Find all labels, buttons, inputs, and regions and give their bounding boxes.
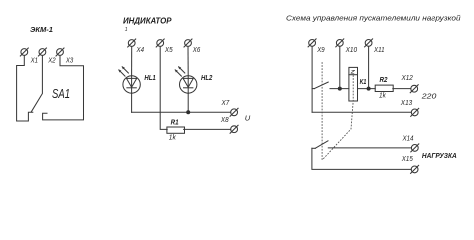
svg-text:z: z [349, 70, 355, 76]
svg-text:X9: X9 [316, 47, 324, 54]
svg-text:X10: X10 [345, 47, 358, 54]
svg-text:X5: X5 [164, 47, 173, 54]
wire X1 to left fixed contact [17, 56, 33, 121]
terminal X7 [221, 100, 238, 116]
svg-text:1: 1 [125, 27, 128, 33]
contact K1.1 blade [314, 82, 328, 89]
svg-text:X1: X1 [30, 58, 38, 65]
terminal X5 [156, 39, 173, 54]
svg-text:X15: X15 [401, 156, 413, 163]
terminal X2 [38, 48, 55, 65]
wire contact to coil [330, 88, 349, 90]
wire HL1 cathode down [131, 93, 133, 112]
terminal X15 [401, 156, 419, 173]
wire X5 down to R1 [160, 47, 167, 130]
svg-text:ИНДИКАТОР: ИНДИКАТОР [123, 17, 172, 26]
svg-text:Схема управления пускателемили: Схема управления пускателемили нагрузкой [286, 13, 461, 22]
svg-text:X6: X6 [192, 47, 200, 54]
wire X11 down [368, 47, 370, 89]
wire coil to R2 [358, 88, 376, 90]
wire R2 to X12 [393, 88, 411, 90]
svg-text:X8: X8 [220, 117, 229, 124]
relay coil K1 [349, 67, 367, 101]
terminal X10 [336, 39, 357, 54]
svg-text:R1: R1 [171, 120, 179, 127]
label ИНДИКАТОР [123, 17, 172, 33]
svg-text:X12: X12 [401, 75, 413, 82]
terminal X6 [184, 39, 200, 54]
terminal X4 [128, 39, 144, 54]
svg-text:K1: K1 [360, 79, 367, 86]
LED HL1 [118, 66, 156, 93]
contact K1.2 left post to X15 [312, 148, 411, 169]
wire X3 to right fixed contact [43, 56, 84, 120]
svg-text:X11: X11 [373, 47, 385, 54]
wire X9 node to X13 [312, 111, 411, 113]
contact K1.2 pivot tick [312, 147, 315, 149]
svg-text:X4: X4 [136, 47, 144, 54]
junction dot X11 [367, 87, 371, 91]
svg-text:X3: X3 [65, 58, 73, 65]
wire common bus to X7 [132, 111, 231, 113]
switch SA1 moving blade from X2 [31, 56, 70, 112]
terminal X12 [401, 75, 419, 93]
svg-text:U: U [245, 114, 251, 123]
terminal X11 [365, 39, 385, 54]
LED HL2 [175, 66, 213, 93]
mechanical link dashed from coil [322, 76, 353, 160]
junction dot X10 [338, 87, 342, 91]
wire X9 down [311, 47, 313, 113]
svg-text:X2: X2 [47, 58, 55, 65]
terminal X14 [402, 135, 419, 152]
terminal X13 [400, 100, 419, 116]
svg-text:R2: R2 [380, 77, 388, 84]
junction dot HL2-bus [186, 110, 190, 114]
terminal X1 [20, 48, 38, 65]
svg-text:220: 220 [421, 91, 438, 100]
resistor R1 [167, 120, 185, 142]
svg-text:X7: X7 [221, 100, 231, 107]
svg-text:SA1: SA1 [52, 86, 70, 101]
terminal X8 [220, 117, 238, 133]
svg-text:1k: 1k [379, 93, 386, 100]
svg-text:1k: 1k [169, 135, 176, 142]
wire R1 to X8 [184, 128, 231, 130]
contact K1.1 pivot tick [312, 88, 314, 90]
svg-text:HL2: HL2 [201, 75, 212, 82]
svg-text:X14: X14 [402, 135, 414, 142]
contact K1.2 blade [315, 141, 328, 149]
wire X4 to HL1 [131, 47, 133, 76]
svg-text:ЭКМ-1: ЭКМ-1 [30, 25, 53, 34]
terminal X3 [56, 48, 73, 65]
terminal X9 [308, 39, 325, 54]
resistor R2 [375, 77, 393, 100]
mechanical link dashed from blades [321, 63, 323, 161]
wire HL2 cathode down [187, 93, 189, 112]
wire X14 [328, 147, 411, 149]
svg-text:X13: X13 [400, 100, 412, 107]
svg-text:НАГРУЗКА: НАГРУЗКА [422, 151, 457, 160]
svg-text:HL1: HL1 [144, 75, 155, 82]
wire X6 to HL2 [187, 47, 189, 76]
wire X10 down [339, 47, 341, 89]
